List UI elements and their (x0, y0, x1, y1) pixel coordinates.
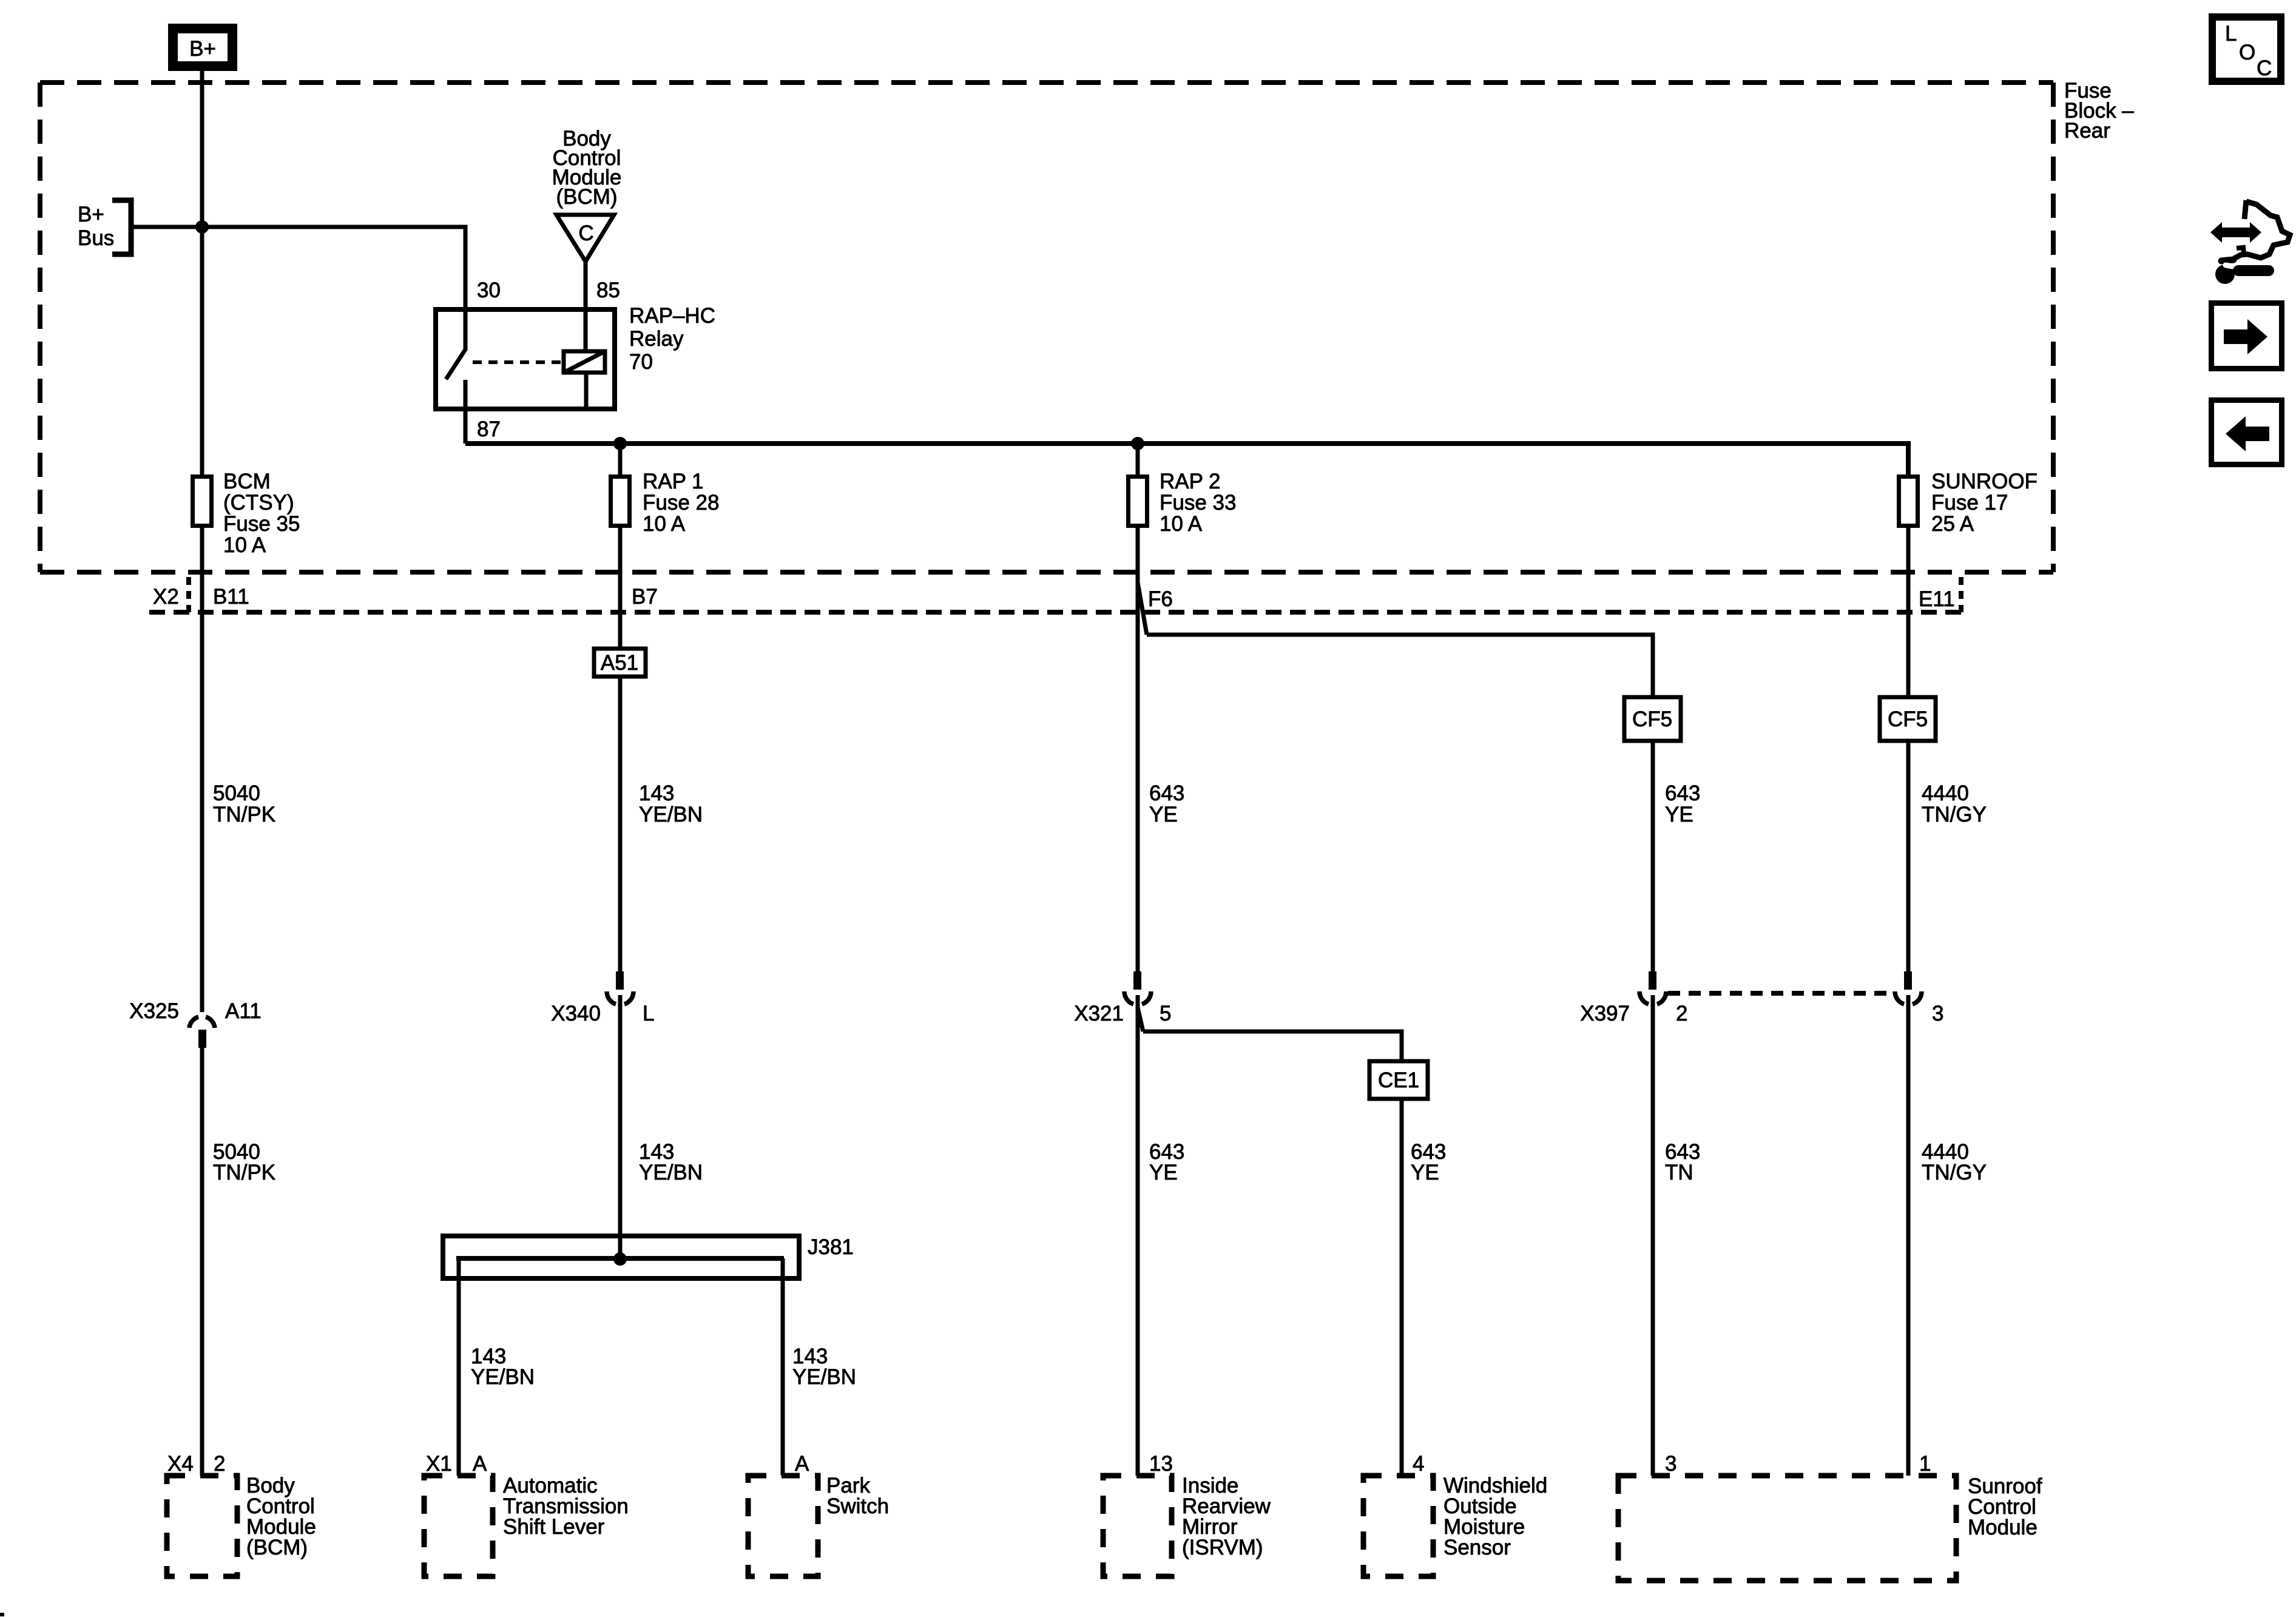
fuse 17 SUNROOF (1899, 477, 1918, 526)
svg-text:CF5: CF5 (1632, 707, 1672, 731)
svg-text:RAP 2: RAP 2 (1160, 470, 1221, 493)
wire CF5 left down to X397-2 (1651, 741, 1655, 971)
svg-text:TN/PK: TN/PK (213, 1161, 275, 1184)
svg-text:X1: X1 (426, 1452, 452, 1476)
connector X340 (L) (607, 971, 633, 1004)
relay actuation dashed link (473, 360, 564, 364)
wire CE1 down to moisture sensor (1400, 1099, 1404, 1476)
wire J381 left leg (457, 1258, 461, 1476)
svg-text:Shift Lever: Shift Lever (503, 1515, 605, 1539)
splice CE1 box (1369, 1061, 1428, 1099)
svg-text:BCM: BCM (223, 470, 271, 493)
X2 separator (186, 577, 191, 612)
svg-text:B+: B+ (189, 37, 216, 61)
fuse 33 RAP 2 (1129, 477, 1147, 526)
connector band fine dashed line (149, 610, 1961, 615)
svg-text:Switch: Switch (826, 1494, 889, 1518)
svg-text:X325: X325 (129, 999, 179, 1023)
svg-text:1: 1 (1919, 1452, 1931, 1476)
svg-text:X321: X321 (1074, 1002, 1124, 1025)
svg-text:2: 2 (1676, 1002, 1687, 1025)
wire CF5 right down to X397-3 (1906, 741, 1911, 971)
svg-text:SUNROOF: SUNROOF (1931, 470, 2038, 493)
label 4440 TN/GY upper (1922, 781, 1987, 826)
label 643 YE upper (1149, 781, 1184, 826)
svg-text:E11: E11 (1919, 587, 1955, 611)
wire relay pin 85 drop (584, 262, 588, 351)
svg-text:4440: 4440 (1922, 781, 1969, 805)
wire coil to box bottom (584, 373, 589, 409)
X397 dashed jumper (1668, 991, 1893, 996)
svg-text:X2: X2 (153, 585, 179, 609)
wire X397-3 down to sunroof pin 1 (1906, 995, 1911, 1476)
svg-text:O: O (2239, 41, 2255, 64)
svg-text:Module: Module (1968, 1516, 2038, 1539)
svg-text:Bus: Bus (78, 226, 114, 250)
label 143 YE/BN left leg (471, 1345, 535, 1389)
fuse 28 RAP 1 (611, 477, 630, 526)
svg-text:TN/GY: TN/GY (1922, 1161, 1987, 1184)
svg-text:3: 3 (1932, 1002, 1943, 1025)
label 643 TN (1665, 1140, 1700, 1184)
svg-text:(CTSY): (CTSY) (223, 491, 294, 515)
label 5040 TN/PK upper (213, 781, 275, 826)
svg-text:25 A: 25 A (1931, 512, 1974, 536)
module Park Switch dashed box (748, 1476, 818, 1576)
svg-text:TN/PK: TN/PK (213, 803, 275, 826)
svg-text:143: 143 (639, 781, 674, 805)
power symbol B+ box (168, 24, 237, 71)
svg-text:85: 85 (596, 279, 620, 302)
svg-text:RAP 1: RAP 1 (643, 470, 704, 493)
svg-text:YE: YE (1149, 1161, 1178, 1184)
svg-text:Sensor: Sensor (1443, 1536, 1511, 1559)
node junction dot RAP2 (1131, 437, 1144, 450)
svg-text:C: C (578, 221, 593, 245)
label 643 YE upper right (1665, 781, 1700, 826)
svg-text:YE: YE (1149, 803, 1178, 826)
module Sunroof Control Module dashed box (1618, 1476, 1956, 1581)
svg-text:10 A: 10 A (643, 512, 686, 536)
wire X321 branch diagonal (1138, 1007, 1143, 1031)
svg-text:(BCM): (BCM) (246, 1536, 308, 1559)
svg-text:643: 643 (1149, 781, 1184, 805)
svg-text:X340: X340 (551, 1002, 601, 1025)
label 643 YE CE1 column (1411, 1140, 1446, 1184)
icon left arrow box (2209, 397, 2284, 467)
splice pack J381 (443, 1235, 854, 1278)
connector X325 (A11) (189, 1017, 215, 1048)
wire X321 branch horizontal to CE1 (1143, 1031, 1402, 1061)
svg-text:A11: A11 (225, 999, 262, 1023)
label 143 YE/BN upper (639, 781, 703, 826)
label RAP-HC Relay 70 (629, 304, 715, 374)
connector X397 pin 3 (1895, 971, 1922, 1004)
wire fuse33 down to X321 (1136, 528, 1140, 971)
label 643 YE mid (1149, 1140, 1184, 1184)
svg-text:X397: X397 (1580, 1002, 1630, 1025)
fuse 35 BCM CTSY (193, 477, 212, 526)
wire fuse17 down to CF5 right (1906, 528, 1911, 697)
label fuse 17 (1931, 470, 2038, 536)
svg-text:L: L (643, 1002, 654, 1025)
wire J381 right leg (781, 1258, 785, 1476)
svg-text:B+: B+ (78, 203, 104, 226)
svg-text:87: 87 (477, 417, 501, 441)
icon LOC box (2209, 13, 2284, 85)
svg-text:Relay: Relay (629, 327, 684, 351)
svg-text:L: L (2225, 22, 2237, 46)
wire A51 to X340 (618, 677, 623, 971)
svg-text:C: C (2257, 56, 2272, 80)
svg-text:YE: YE (1411, 1161, 1439, 1184)
fuse block dashed border left (38, 83, 42, 572)
svg-text:Fuse 28: Fuse 28 (643, 491, 719, 515)
connector X397 pin 2 (1639, 971, 1666, 1004)
label fuse 28 (643, 470, 719, 536)
fuse block dashed border bottom (X2 connector line) (40, 570, 2053, 575)
svg-text:30: 30 (477, 279, 501, 302)
label fuse 35 (223, 470, 300, 557)
label 4440 TN/GY lower (1922, 1140, 1987, 1184)
svg-text:B7: B7 (632, 585, 658, 609)
svg-text:10 A: 10 A (223, 533, 266, 557)
svg-text:(ISRVM): (ISRVM) (1182, 1536, 1263, 1559)
svg-text:X4: X4 (167, 1452, 194, 1476)
svg-text:13: 13 (1149, 1452, 1173, 1476)
module Windshield Outside Moisture Sensor dashed box (1363, 1476, 1433, 1576)
svg-text:A: A (795, 1452, 809, 1476)
svg-text:B11: B11 (213, 585, 249, 609)
relay switch lower stub / pin 87 (464, 380, 468, 444)
wire B+ drop to fuse 35 (200, 70, 204, 474)
svg-text:YE/BN: YE/BN (792, 1365, 856, 1389)
svg-text:2: 2 (214, 1452, 225, 1476)
svg-text:70: 70 (629, 350, 653, 374)
wire X325 down (200, 1048, 204, 1476)
wire F6 diagonal branch (1138, 582, 1147, 635)
wire X340 down to J381 (618, 995, 623, 1259)
svg-text:CF5: CF5 (1888, 707, 1928, 731)
fuse block dashed border top (40, 80, 2053, 85)
icon service double arrow (2210, 222, 2261, 243)
relay RAP-HC box (436, 309, 615, 409)
label 143 YE/BN mid (639, 1140, 703, 1184)
relay switch arm (446, 349, 465, 379)
svg-text:Fuse 35: Fuse 35 (223, 512, 300, 536)
label 143 YE/BN right leg (792, 1345, 856, 1389)
wire 87 rail (465, 444, 1908, 474)
svg-text:YE/BN: YE/BN (639, 1161, 703, 1184)
BCM triangle connector C (556, 215, 614, 262)
wire X321 down to ISRVM (1136, 995, 1140, 1476)
label fuse 33 (1160, 470, 1236, 536)
svg-text:5: 5 (1160, 1002, 1171, 1025)
svg-text:A51: A51 (601, 651, 638, 675)
wire rail drop to fuse 28 (618, 444, 623, 474)
label Fuse Block - Rear (2064, 79, 2134, 143)
icon wrench (2215, 260, 2269, 284)
icon right arrow box (2209, 300, 2284, 371)
svg-text:YE/BN: YE/BN (471, 1365, 535, 1389)
svg-text:Fuse 33: Fuse 33 (1160, 491, 1236, 515)
module Body Control Module (BCM) dashed box (167, 1476, 237, 1576)
stray mark bottom-left (0, 1613, 4, 1616)
node B+ Bus bracket (78, 200, 131, 254)
splice CF5 box right (1880, 697, 1936, 741)
node junction dot B+ bus (195, 220, 209, 234)
wire F6 branch horizontal to CF5 left (1147, 635, 1653, 697)
splice CF5 box left (1624, 697, 1681, 741)
svg-text:RAP–HC: RAP–HC (629, 304, 715, 328)
wire B+ bus horizontal to relay pin 30 (131, 227, 465, 351)
connector X321 (5) (1124, 971, 1151, 1004)
svg-text:643: 643 (1665, 781, 1700, 805)
label 5040 TN/PK lower (213, 1140, 275, 1184)
icon service outline (2244, 200, 2246, 219)
svg-text:5040: 5040 (213, 781, 260, 805)
svg-text:F6: F6 (1148, 587, 1173, 611)
svg-text:YE: YE (1665, 803, 1693, 826)
splice A51 box (594, 649, 646, 677)
svg-text:10 A: 10 A (1160, 512, 1203, 536)
E11 separator (1959, 577, 1963, 612)
svg-text:A: A (473, 1452, 487, 1476)
svg-text:Fuse 17: Fuse 17 (1931, 491, 2008, 515)
svg-text:TN/GY: TN/GY (1922, 803, 1987, 826)
node junction dot RAP1 (613, 437, 627, 450)
wire fuse35 down to X325 (200, 528, 204, 1012)
relay coil (564, 351, 605, 373)
svg-text:(BCM): (BCM) (556, 185, 617, 209)
label Body Control Module (BCM) top (552, 127, 622, 209)
svg-text:CE1: CE1 (1378, 1068, 1419, 1092)
svg-text:TN: TN (1665, 1161, 1693, 1184)
wire fuse28 down to A51 (618, 528, 623, 649)
svg-text:4: 4 (1413, 1452, 1424, 1476)
svg-text:J381: J381 (808, 1235, 854, 1259)
module Automatic Transmission Shift Lever dashed box (424, 1476, 493, 1576)
svg-text:Rear: Rear (2064, 119, 2110, 143)
fuse block dashed border right (2051, 83, 2056, 572)
module Inside Rearview Mirror dashed box (1103, 1476, 1172, 1576)
wire rail drop to fuse 33 (1136, 444, 1140, 474)
svg-text:YE/BN: YE/BN (639, 803, 703, 826)
svg-text:3: 3 (1665, 1452, 1676, 1476)
wire X397-2 down to sunroof pin 3 (1651, 995, 1655, 1476)
